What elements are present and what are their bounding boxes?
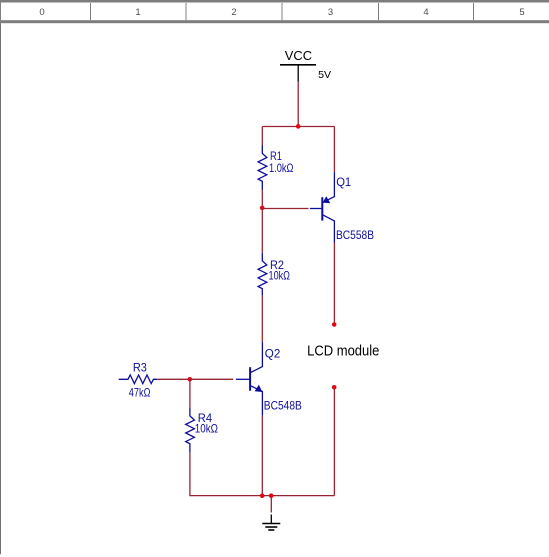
svg-text:10kΩ: 10kΩ bbox=[269, 268, 291, 282]
wire R3 to Q2 base junction bbox=[157, 378, 233, 380]
svg-text:Q1: Q1 bbox=[336, 175, 351, 189]
svg-text:0: 0 bbox=[39, 7, 44, 18]
sheet left border bbox=[0, 23, 1, 554]
label Q1 bbox=[336, 175, 351, 189]
resistor R2 bbox=[258, 253, 267, 296]
wire Q1 base branch bbox=[262, 208, 308, 210]
ruler bar background bbox=[0, 0, 549, 23]
svg-text:1.0kΩ: 1.0kΩ bbox=[269, 161, 294, 175]
value 10kΩ bbox=[269, 268, 291, 282]
wire R4 to bottom rail bbox=[189, 453, 191, 496]
label R1 bbox=[270, 149, 282, 163]
ruler numbers bbox=[39, 7, 524, 18]
value 1.0kΩ bbox=[269, 161, 294, 175]
svg-text:47kΩ: 47kΩ bbox=[129, 386, 151, 400]
wire VCC stem bbox=[297, 82, 299, 127]
Q1 emitter arrow (points to base) bbox=[323, 196, 331, 203]
wire bottom rail bbox=[190, 495, 335, 497]
resistor R1 bbox=[258, 145, 267, 190]
VCC label bbox=[285, 48, 312, 63]
svg-text:VCC: VCC bbox=[285, 48, 312, 63]
value label 5V bbox=[318, 69, 331, 81]
svg-text:2: 2 bbox=[231, 7, 236, 18]
ground bbox=[262, 515, 280, 531]
svg-text:BC558B: BC558B bbox=[336, 228, 374, 242]
resistor R4 bbox=[186, 408, 195, 453]
wire Q1 collector to LCD module top terminal bbox=[333, 243, 335, 323]
junction ground / bottom rail bbox=[269, 493, 274, 498]
wire ground stem bbox=[270, 496, 272, 513]
Q2 emitter arrow bbox=[255, 385, 263, 392]
transistor Q1 BC558B (PNP) bbox=[310, 172, 335, 242]
wire top rail to R1 bbox=[261, 127, 263, 146]
label R3 bbox=[133, 361, 147, 375]
wire Q2 emitter to bottom rail bbox=[261, 416, 263, 496]
value 47kΩ bbox=[129, 386, 151, 400]
svg-text:4: 4 bbox=[423, 7, 428, 18]
svg-text:3: 3 bbox=[328, 7, 333, 18]
transistor Q2 BC548B (NPN) bbox=[236, 342, 263, 416]
junction Q2 emitter / bottom rail bbox=[260, 493, 265, 498]
svg-text:5V: 5V bbox=[318, 69, 331, 81]
resistor R3 bbox=[119, 375, 158, 384]
junction R1 / Q1 base branch bbox=[260, 206, 265, 211]
ruler tick dividers bbox=[91, 3, 474, 20]
LCD module top terminal bbox=[332, 322, 337, 327]
wire top rail to Q1 emitter bbox=[333, 127, 335, 173]
value 10kΩ bbox=[195, 422, 218, 436]
svg-text:5: 5 bbox=[519, 7, 524, 18]
svg-text:BC548B: BC548B bbox=[264, 399, 302, 413]
svg-text:1: 1 bbox=[135, 7, 140, 18]
label R4 bbox=[198, 411, 213, 425]
label R2 bbox=[270, 258, 284, 272]
power symbol VCC bbox=[280, 65, 316, 82]
junction at VCC / top rail bbox=[296, 124, 301, 129]
junction R3 / R4 / Q2 base bbox=[188, 377, 193, 382]
svg-text:LCD module: LCD module bbox=[307, 343, 379, 359]
svg-text:10kΩ: 10kΩ bbox=[195, 422, 218, 436]
part number BC558B bbox=[336, 228, 374, 242]
label LCD module bbox=[307, 343, 379, 359]
label Q2 bbox=[265, 346, 281, 360]
LCD module bottom terminal bbox=[332, 385, 337, 390]
svg-text:Q2: Q2 bbox=[265, 346, 281, 360]
wire top rail bbox=[262, 126, 334, 128]
svg-text:R3: R3 bbox=[133, 361, 147, 375]
wire junction down to R4 bbox=[189, 379, 191, 408]
wire R2 to Q2 collector bbox=[261, 296, 263, 342]
part number BC548B bbox=[264, 399, 302, 413]
wire R1 to junction bbox=[261, 190, 263, 253]
wire LCD module bottom terminal to bottom rail bbox=[333, 389, 335, 495]
